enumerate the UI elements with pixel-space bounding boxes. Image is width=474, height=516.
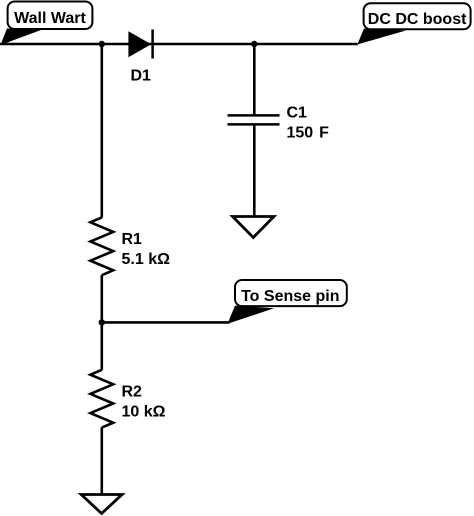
svg-text:R1: R1	[122, 231, 143, 248]
svg-text:DC DC boost: DC DC boost	[368, 11, 467, 28]
svg-text:10 kΩ: 10 kΩ	[122, 404, 166, 421]
svg-text:Wall Wart: Wall Wart	[14, 10, 86, 27]
svg-text:D1: D1	[131, 68, 152, 85]
svg-text:5.1 kΩ: 5.1 kΩ	[122, 251, 171, 268]
svg-text:R2: R2	[122, 384, 143, 401]
svg-text:C1: C1	[287, 105, 308, 122]
svg-text:150 F: 150 F	[287, 125, 330, 142]
svg-text:To Sense pin: To Sense pin	[241, 288, 339, 305]
